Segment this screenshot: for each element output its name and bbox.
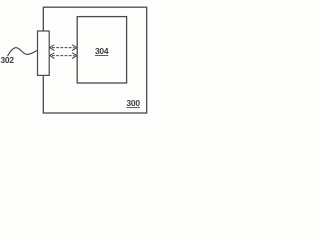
wire: squiggly lead line from label 302 xyxy=(8,48,38,57)
background xyxy=(0,0,151,120)
transducer block on boundary (element 302 target) xyxy=(38,31,50,75)
svg-text:300: 300 xyxy=(127,98,141,108)
wire: dashed double arrow 2 (lower) xyxy=(50,53,77,59)
outer block 300 (device boundary) xyxy=(43,7,146,113)
wire: dashed double arrow 1 (upper) xyxy=(50,45,77,51)
svg-text:304: 304 xyxy=(95,46,109,56)
svg-text:302: 302 xyxy=(1,55,15,65)
inner block 304 xyxy=(77,17,126,83)
